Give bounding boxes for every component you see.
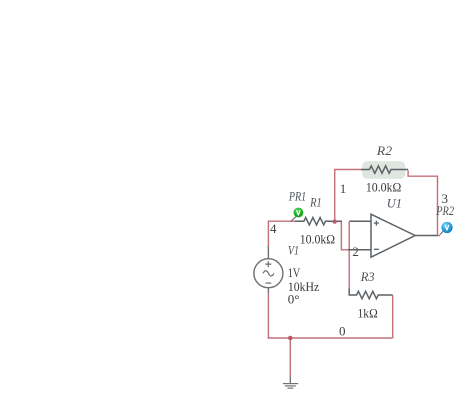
svg-text:10.0kΩ: 10.0kΩ — [300, 232, 335, 247]
wire net1 junction-to-inverting-input — [341, 222, 348, 250]
svg-text:PR2: PR2 — [435, 203, 454, 218]
wire net0 V1-to-rail — [267, 292, 269, 338]
svg-text:PR1: PR1 — [288, 189, 306, 204]
wire net0 ground stem — [289, 338, 291, 377]
wire net2 noninverting-input-to-R3 — [348, 222, 350, 289]
selection highlight R2 — [362, 161, 405, 179]
svg-text:10.0kΩ: 10.0kΩ — [366, 179, 401, 194]
svg-text:1: 1 — [340, 181, 347, 196]
resistor R2 — [361, 166, 408, 173]
svg-text:0°: 0° — [288, 292, 300, 307]
resistor R3 — [349, 289, 393, 299]
svg-text:4: 4 — [270, 221, 277, 236]
svg-text:2: 2 — [352, 244, 359, 259]
svg-text:U1: U1 — [387, 196, 402, 211]
probe PR2 — [440, 222, 453, 235]
svg-text:V1: V1 — [288, 243, 299, 258]
svg-text:R1: R1 — [309, 194, 321, 209]
resistor R1 — [295, 218, 342, 225]
probe PR1 — [290, 208, 303, 222]
wire net0 bottom rail — [268, 337, 393, 339]
ground — [283, 377, 298, 389]
wire net1 junction-to-R2 — [335, 170, 361, 222]
svg-text:R3: R3 — [360, 269, 375, 284]
voltage source V1 — [254, 246, 283, 292]
wire net4 V1-to-R1 — [268, 221, 295, 246]
svg-text:R2: R2 — [376, 143, 393, 158]
junction ground tap — [288, 336, 293, 341]
wire net0 R3-to-rail — [392, 296, 394, 339]
junction at R1 output — [333, 219, 337, 223]
wire net3 R2-to-output — [408, 170, 440, 235]
svg-text:1V: 1V — [288, 265, 301, 280]
svg-text:0: 0 — [339, 324, 346, 339]
op-amp U1 — [348, 214, 438, 257]
svg-text:1kΩ: 1kΩ — [358, 305, 378, 320]
